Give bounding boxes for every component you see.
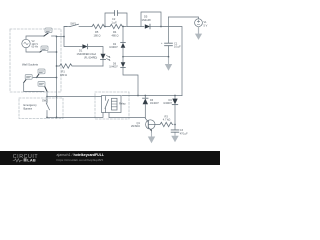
svg-text:60 Hz: 60 Hz [32,46,39,49]
svg-text:2N3904: 2N3904 [131,125,140,128]
wire bottom rail [47,113,103,118]
wire bypass loop [141,12,161,27]
svg-text:D5: D5 [144,15,148,19]
relay RLY1 [102,96,127,113]
svg-text:4.7 kΩ: 4.7 kΩ [163,118,171,122]
switch SW4 (second row in wall box) [40,46,57,52]
svg-text:180 Ω: 180 Ω [94,34,101,38]
resistor R4 [105,24,126,37]
ground below C1 [165,57,172,71]
wire sockets left vertical [24,83,44,92]
svg-text:480 Ω: 480 Ω [112,34,119,38]
wire mid top row [127,26,144,28]
svg-text:Relay: Relay [119,102,126,106]
wire coil bottom [109,113,145,118]
node dot mid tap [122,26,169,58]
node dots bottom [46,117,57,119]
diode D1 [77,44,104,56]
node dots on rail [46,36,65,98]
circuitlab logo [13,154,39,163]
voltage source V2 [22,36,44,52]
resistor R1 [57,64,104,77]
capacitor C3 [171,129,188,136]
svg-text:R4: R4 [113,30,117,34]
svg-text:ajansch1 / hotelkeycardFULL: ajansch1 / hotelkeycardFULL [57,153,105,157]
footer bar [0,151,220,165]
svg-text:1N4007: 1N4007 [163,102,172,105]
resistor R3 [155,114,173,126]
switch SW6 (sockets row 1) [33,69,57,78]
switch SW8 (sockets row 2) [38,82,47,97]
node junction dot [160,26,162,28]
svg-text:1N4148: 1N4148 [142,18,152,22]
wire D1 branch [64,37,82,47]
node dots relay net [144,95,175,126]
wire coil top [122,95,182,97]
diode D6 (points down) [109,57,138,96]
diode D5 [142,15,162,29]
voltage source V1 [169,17,208,27]
wall sockets label [22,62,39,66]
wire V1 branch down [168,17,170,43]
svg-text:https://circuitlab.com/c6vq3kq: https://circuitlab.com/c6vq3kqd8r5 [57,158,104,162]
transistor Q1 [131,118,155,135]
svg-text:Emergency: Emergency [24,103,38,107]
switch SW3 (top row in wall box) [44,28,57,36]
node junction dot [104,26,106,28]
wire right rail [161,27,182,96]
svg-text:1N4007: 1N4007 [109,46,118,49]
capacitor C1 [161,41,181,63]
diode D4 [163,96,178,130]
ground below V1 [195,27,202,40]
svg-text:C2: C2 [112,17,116,21]
wire mid tap [123,56,169,58]
svg-text:SW1: SW1 [70,21,76,25]
switch SW7 (sockets left branch) [24,75,33,83]
ground below C3 [171,134,178,143]
wire diode chain top [122,27,124,43]
wire node A horizontal [57,36,65,38]
svg-text:Bypass: Bypass [24,107,33,111]
diode D2 (points up) [109,43,125,57]
svg-text:(FL-504RD): (FL-504RD) [84,56,97,59]
svg-text:1N4007: 1N4007 [109,66,118,69]
wire up to SW1 row [64,27,67,37]
svg-text:SW2: SW2 [42,99,48,103]
svg-text:1N4007: 1N4007 [150,102,159,105]
emergency bypass label [24,103,38,111]
ground below Q1 [148,133,155,143]
svg-text:10 µF: 10 µF [174,44,181,48]
resistor R5 [92,24,104,37]
relay enclosure box [95,92,129,119]
capacitor C2 [112,11,118,25]
svg-text:Wall Sockets: Wall Sockets [22,62,39,66]
footer credits text [57,153,105,162]
svg-text:R1: R1 [62,70,66,74]
switch SW1 [64,21,92,26]
svg-text:R5: R5 [95,30,99,34]
node dot coil wire [137,95,139,97]
wall sockets enclosure box [10,29,61,92]
svg-text:180 Ω: 180 Ω [60,73,67,77]
svg-text:470 µF: 470 µF [180,133,188,136]
emergency bypass enclosure box [19,98,63,119]
wire relay feed top [47,96,102,98]
switch SW2 emergency [42,97,50,118]
svg-text:5 V: 5 V [204,24,208,27]
node rail vertical wire [56,36,58,117]
svg-text:LAB: LAB [27,157,36,162]
wire capacitor branch [105,13,127,27]
diode D3 flyback [143,96,160,119]
LED LED1 [84,53,110,66]
